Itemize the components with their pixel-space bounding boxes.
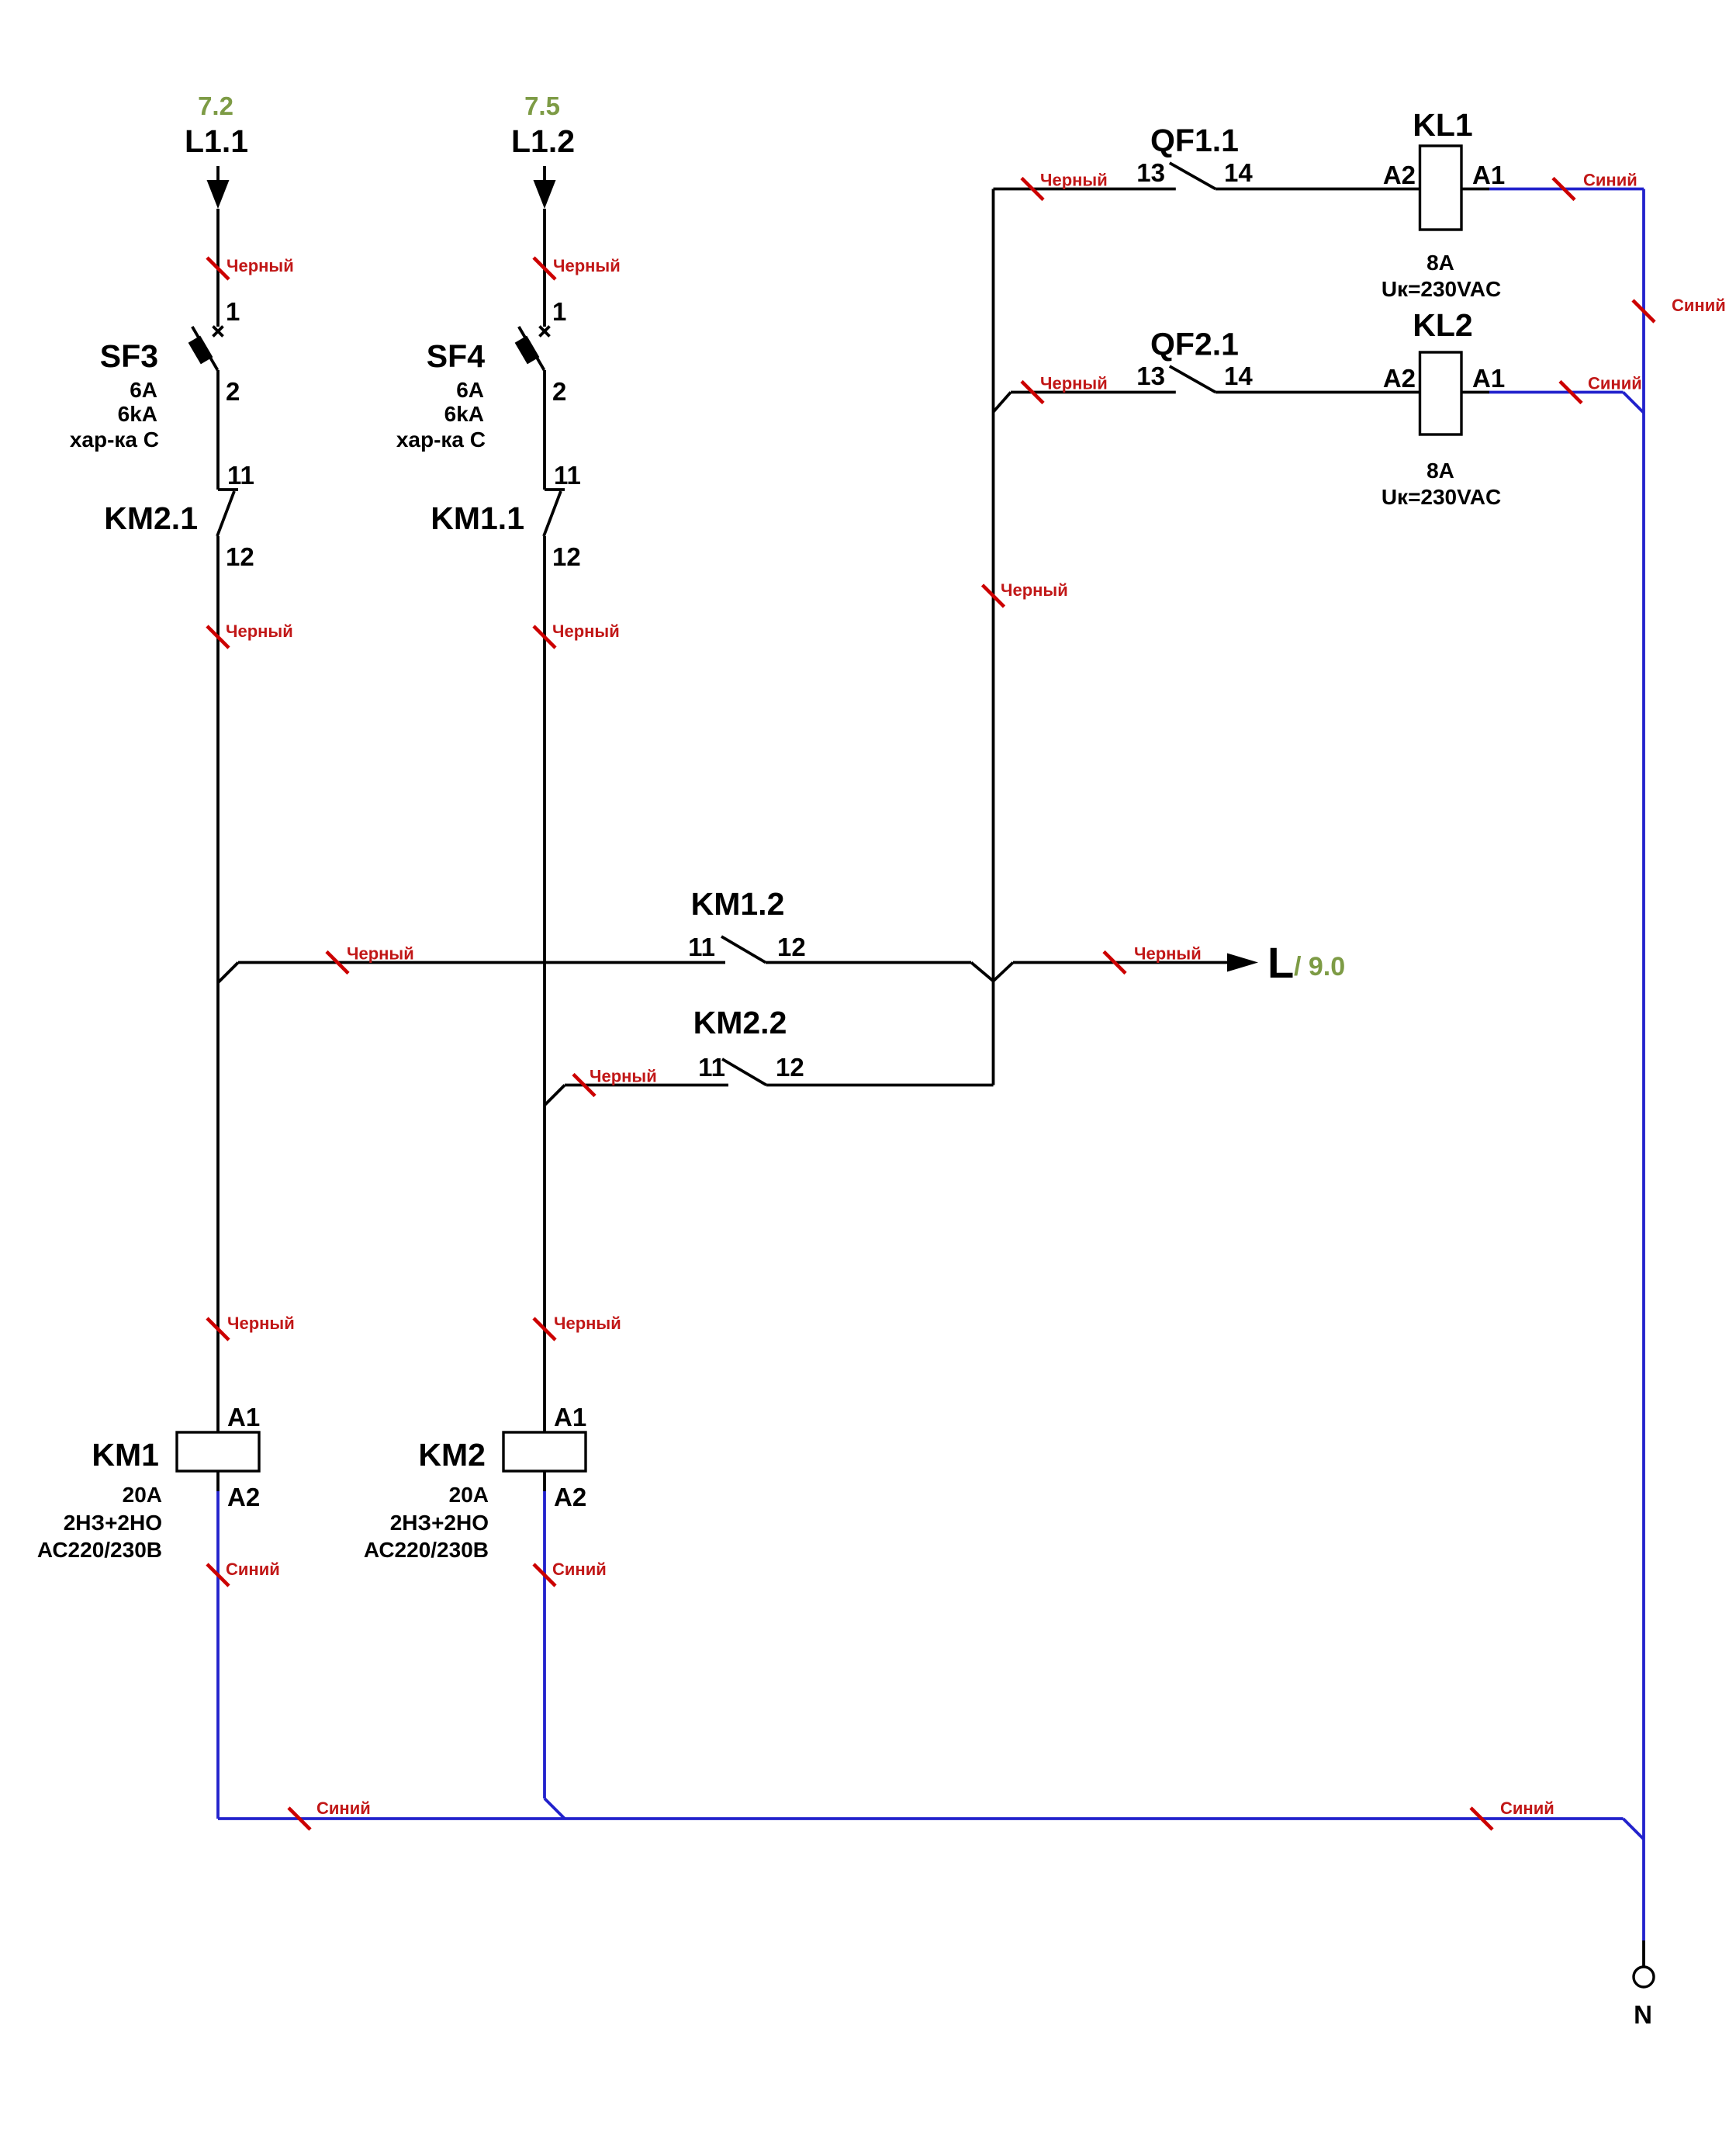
svg-text:11: 11 [227,461,254,490]
breaker SF3 contact cross [213,327,223,337]
svg-text:2НЗ+2НО: 2НЗ+2НО [390,1511,489,1535]
svg-text:SF3: SF3 [100,338,158,374]
flow arrow L1.2 [534,180,556,209]
terminal N circle [1634,1967,1654,1987]
cable marker slash Черный on L1.1 wire [207,258,229,279]
svg-text:Черный: Черный [1134,944,1202,964]
NC contact KM1.1 blade [544,491,561,536]
breaker SF4 thermal release box [515,336,540,365]
wire KM2.2 branch left segment [565,1084,728,1087]
svg-text:A2: A2 [1383,161,1416,189]
svg-text:Синий: Синий [226,1560,280,1579]
wire KM2.2 pin 12 to feeder vertical corner [766,1084,994,1087]
blue chamfer bottom bus into N vertical [1624,1819,1644,1840]
svg-text:SF4: SF4 [427,338,485,374]
wire L1.2 arrow to SF4 pin 1 [543,209,546,327]
svg-text:KM1.1: KM1.1 [431,500,524,536]
cable marker slash Черный above KM1 coil [207,1318,229,1340]
wire QF2.1 pin 14 to KL2 A2 [1216,391,1420,394]
svg-text:Uк=230VAC: Uк=230VAC [1382,277,1501,301]
svg-text:13: 13 [1136,158,1165,187]
junction chamfer left into feeder vertical [971,963,994,981]
blue bottom bus [218,1817,1624,1820]
svg-text:2НЗ+2НО: 2НЗ+2НО [64,1511,162,1535]
svg-text:A1: A1 [227,1403,260,1431]
breaker SF4 blade [519,327,545,370]
wire SF3 pin 2 to KM2.1 pin 11 [216,370,220,490]
svg-text:6kA: 6kA [118,402,157,426]
svg-text:Uк=230VAC: Uк=230VAC [1382,485,1501,509]
wire stub KL2 A1 [1461,391,1489,394]
svg-text:N: N [1634,2000,1652,2029]
svg-text:A1: A1 [1472,161,1505,189]
coil KM1 [177,1432,259,1471]
wire KM2.1 pin 12 down to KM1 coil A1 [216,536,220,1432]
svg-text:KM2: KM2 [418,1437,486,1473]
svg-text:8A: 8A [1426,459,1454,483]
svg-text:14: 14 [1224,362,1253,390]
svg-text:Черный: Черный [1040,374,1108,393]
svg-text:Синий: Синий [1588,374,1642,393]
blue wire KL1 A1 to N vertical [1489,188,1644,191]
svg-text:6A: 6A [130,378,157,402]
wire stub above L1.2 flow arrow [543,166,546,181]
black stub above N terminal [1642,1940,1645,1967]
coil KM2 [503,1432,586,1471]
svg-text:A1: A1 [554,1403,586,1431]
wire stub above L1.1 flow arrow [216,166,220,181]
cable marker slash Черный above KM2 coil [534,1318,555,1340]
contact KM1.2 blade [721,936,766,963]
wire KM1.2 branch left segment [238,961,725,964]
cable marker slash Синий below KM1 [207,1564,229,1586]
relay coil KL1 [1420,146,1462,230]
relay coil KL2 [1420,352,1462,434]
chamfer KM1 column to KM1.2 branch [218,963,238,983]
svg-text:L1.1: L1.1 [185,123,248,159]
svg-text:Черный: Черный [227,1314,295,1333]
cable marker slash Синий after KL1 [1553,178,1575,200]
svg-text:Синий: Синий [1583,171,1637,190]
svg-text:L: L [1267,938,1294,987]
svg-text:Черный: Черный [226,621,293,641]
NC contact KM2.1 fixed bar [218,488,238,491]
svg-text:KM2.2: KM2.2 [693,1005,787,1040]
svg-text:Черный: Черный [1001,580,1068,600]
blue chamfer KL2 wire into N vertical [1624,393,1644,414]
wire L1.1 arrow to SF3 pin 1 [216,209,220,327]
svg-text:QF2.1: QF2.1 [1150,327,1239,362]
cable marker slash Черный before QF2.1 [1022,382,1043,403]
blue chamfer KM2 column into bottom bus [545,1798,565,1819]
svg-text:12: 12 [226,542,254,571]
svg-text:1: 1 [226,297,240,326]
svg-text:KM1.2: KM1.2 [691,886,785,922]
NC contact KM1.1 fixed bar [545,488,565,491]
svg-text:Синий: Синий [1672,296,1726,315]
svg-text:хар-ка С: хар-ка С [70,428,159,452]
svg-text:A2: A2 [227,1483,260,1511]
svg-text:20A: 20A [123,1483,162,1507]
svg-text:Черный: Черный [553,256,621,275]
junction chamfer right into feeder vertical [994,963,1014,981]
svg-text:Черный: Черный [554,1314,621,1333]
breaker SF4 contact cross [540,327,550,337]
wire stub below KM2 coil [543,1471,546,1491]
wire stub below KM1 coil [216,1471,220,1491]
svg-text:Синий: Синий [316,1798,371,1818]
svg-text:1: 1 [552,297,566,326]
breaker SF3 thermal release box [188,336,213,365]
svg-text:KL1: KL1 [1413,107,1472,143]
wire stub KL1 A1 [1461,188,1489,191]
cable marker slash Черный on L1.2 wire [534,258,555,279]
svg-text:QF1.1: QF1.1 [1150,123,1239,158]
svg-text:A2: A2 [554,1483,586,1511]
wire feeder to QF1.1 pin 13 [994,188,1176,191]
svg-text:14: 14 [1224,158,1253,187]
wire QF1.1 pin 14 to KL1 A2 [1216,188,1420,191]
NC contact KM2.1 blade [217,491,234,536]
blue wire KM2 A2 down to bottom bus [543,1491,546,1798]
wire junction to L arrow [1013,961,1228,964]
cable marker slash Синий on bottom bus left [289,1808,310,1830]
svg-text:АС220/230В: АС220/230В [364,1538,489,1562]
flow arrow to net L [1227,954,1258,972]
svg-text:7.2: 7.2 [198,92,233,120]
svg-text:Черный: Черный [227,256,294,275]
cable marker slash Синий below KM2 [534,1564,555,1586]
cable marker slash Черный on feeder vertical [983,585,1005,607]
svg-text:12: 12 [777,933,806,961]
svg-text:Черный: Черный [552,621,620,641]
chamfer feeder vertical to QF2.1 branch [994,393,1012,413]
wire feeder vertical from QF1.1 corner down to KM2.2 row [992,189,995,1085]
cable marker slash Черный on KM2.2 branch [573,1075,595,1096]
svg-text:11: 11 [688,933,715,961]
svg-text:11: 11 [554,461,581,490]
svg-text:7.5: 7.5 [524,92,560,120]
contact QF1.1 blade [1170,163,1216,189]
svg-text:KM1: KM1 [92,1437,159,1473]
svg-text:A1: A1 [1472,364,1505,393]
svg-text:Черный: Черный [590,1067,657,1086]
chamfer KM2 column to KM2.2 branch [545,1085,565,1106]
svg-text:L1.2: L1.2 [511,123,575,159]
svg-text:20A: 20A [449,1483,489,1507]
svg-text:АС220/230В: АС220/230В [37,1538,162,1562]
svg-text:12: 12 [552,542,581,571]
blue wire KM1 A2 down to bottom bus [216,1491,220,1819]
svg-text:хар-ка С: хар-ка С [396,428,486,452]
cable marker slash Черный below KM1.1 [534,626,555,648]
cable marker slash Черный before QF1.1 [1022,178,1043,200]
svg-text:2: 2 [552,377,566,406]
svg-text:11: 11 [698,1053,725,1082]
svg-text:12: 12 [776,1053,804,1082]
wire KM1.1 pin 12 down to KM2 coil A1 [543,536,546,1432]
cable marker slash Черный on KM1.2 branch [327,952,348,974]
svg-text:2: 2 [226,377,240,406]
svg-text:8A: 8A [1426,251,1454,275]
blue N vertical wire [1642,189,1645,1941]
blue wire KL2 A1 toward N vertical [1489,391,1624,394]
contact KM2.2 blade [722,1059,766,1085]
svg-text:KL2: KL2 [1413,307,1472,343]
cable marker slash Черный below KM2.1 [207,626,229,648]
wire SF4 pin 2 to KM1.1 pin 11 [543,370,546,490]
svg-text:Синий: Синий [552,1560,607,1579]
cable marker slash Синий on bottom bus right [1471,1808,1492,1830]
svg-text:6kA: 6kA [444,402,484,426]
svg-text:13: 13 [1136,362,1165,390]
svg-text:Черный: Черный [1040,171,1108,190]
cable marker slash Синий after KL2 [1560,382,1582,403]
flow arrow L1.1 [207,180,230,209]
cable marker slash Черный before L arrow [1104,952,1126,974]
svg-text:KM2.1: KM2.1 [104,500,198,536]
wire KM1.2 pin 12 to feeder junction [766,961,971,964]
svg-text:Черный: Черный [347,944,414,964]
svg-text:Синий: Синий [1500,1798,1554,1818]
cable marker slash Синий on N vertical [1633,300,1655,322]
svg-text:6A: 6A [456,378,484,402]
contact QF2.1 blade [1170,366,1216,393]
svg-text:A2: A2 [1383,364,1416,393]
breaker SF3 blade [192,327,218,370]
wire feeder to QF2.1 pin 13 [1011,391,1176,394]
svg-text:/ 9.0: / 9.0 [1294,952,1345,981]
